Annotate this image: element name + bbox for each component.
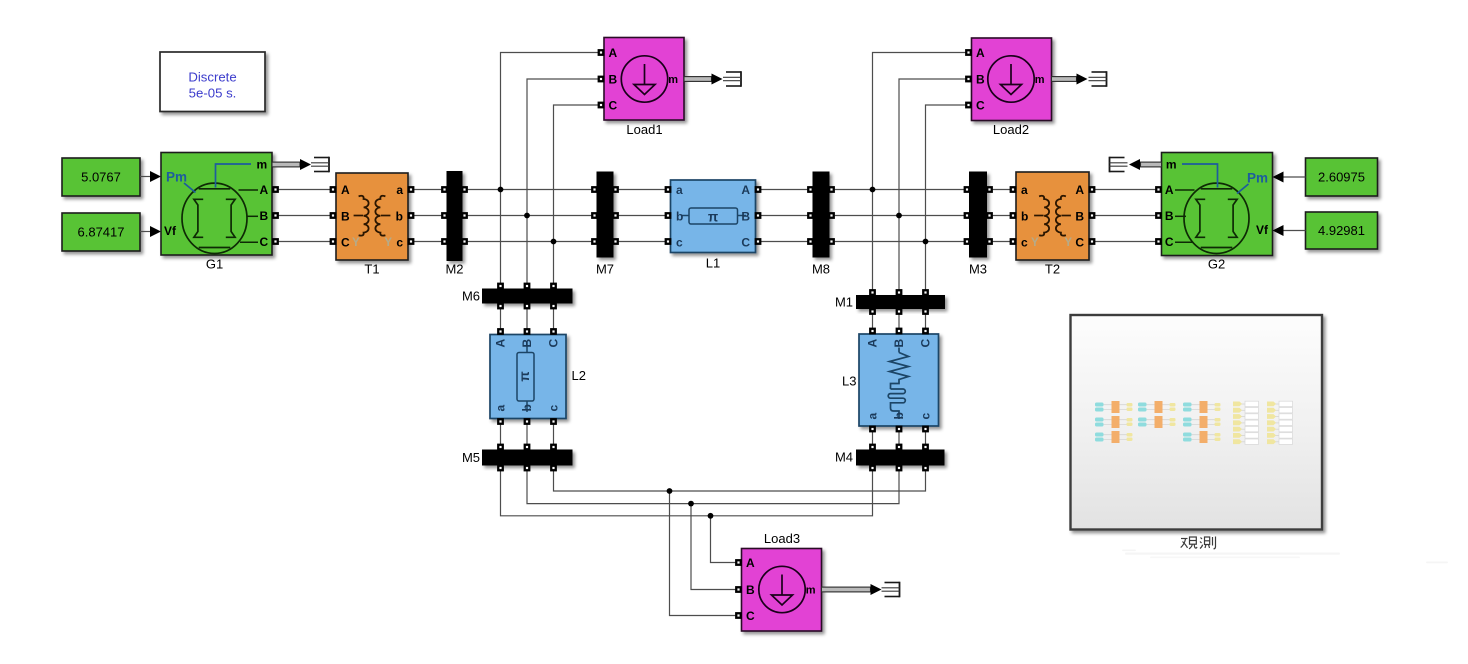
three-phase measurement bar M1 [857, 296, 945, 309]
svg-text:Y: Y [1031, 237, 1039, 249]
svg-text:Pm: Pm [166, 170, 187, 185]
wire: constant 5.0767 to G1 Pm with arrowhead [140, 171, 161, 182]
dynamic load block Load3 [742, 549, 822, 632]
svg-text:Y: Y [352, 237, 360, 249]
svg-text:M7: M7 [596, 262, 614, 277]
wire: Load2 phase B riser [899, 79, 968, 296]
svg-text:T2: T2 [1045, 262, 1060, 277]
three-phase measurement bar M5 [483, 450, 573, 465]
junction dots on bottom tie lines [667, 488, 714, 519]
svg-text:M3: M3 [969, 262, 987, 277]
wire: Load2 measurement output m (wide signal) [1052, 74, 1088, 85]
wire: Load2 phase A riser [873, 53, 969, 296]
wire: Load3 phase B drop [691, 504, 738, 590]
svg-text:b: b [892, 412, 906, 419]
svg-text:C: C [547, 339, 561, 348]
svg-text:M5: M5 [462, 450, 480, 465]
label of scope subsystem (Chinese "guan ce" = observe) [1181, 537, 1216, 549]
svg-text:2.60975: 2.60975 [1318, 170, 1365, 185]
three-phase measurement bar M3 [970, 172, 987, 257]
ports of T2 [1010, 186, 1096, 245]
svg-text:Load1: Load1 [626, 122, 662, 137]
ports of M8 [807, 186, 835, 245]
svg-text:L1: L1 [706, 256, 720, 271]
svg-text:A: A [746, 556, 755, 570]
svg-text:M2: M2 [445, 262, 463, 277]
svg-text:L2: L2 [572, 368, 586, 383]
svg-text:B: B [520, 339, 534, 348]
svg-text:G2: G2 [1208, 257, 1225, 272]
ports of M6 [497, 283, 557, 310]
svg-text:π: π [517, 371, 532, 381]
wire: Load1 measurement output m (wide signal) [684, 74, 723, 85]
svg-text:4.92981: 4.92981 [1318, 223, 1365, 238]
wire: bottom tie line phase a [501, 465, 873, 516]
svg-text:B: B [746, 583, 755, 597]
svg-text:m: m [1166, 158, 1177, 172]
constant block 4.92981 (Vf reference for G2) [1306, 212, 1378, 249]
junction dots on left bus taps [498, 187, 557, 245]
svg-text:c: c [919, 413, 933, 420]
svg-text:π: π [708, 209, 718, 224]
junction dots on right bus taps [870, 187, 929, 245]
transmission line L1 (pi section) [671, 180, 756, 253]
svg-text:A: A [341, 183, 350, 197]
transformer T2 [1016, 172, 1089, 260]
ports of M5 [497, 444, 557, 472]
svg-text:5.0767: 5.0767 [81, 170, 121, 185]
svg-text:B: B [1165, 209, 1174, 223]
svg-text:Y: Y [1064, 237, 1072, 249]
three-phase measurement bar M4 [857, 450, 945, 465]
ports of L3 [869, 328, 929, 433]
wire: Load2 phase C riser [926, 105, 969, 296]
three-phase measurement bar M7 [597, 172, 613, 257]
svg-text:A: A [976, 46, 985, 60]
wire: constant 4.92981 to G2 Vf with arrowhead [1273, 225, 1306, 236]
svg-text:Pm: Pm [1247, 171, 1268, 186]
wire: Load1 phase C riser [554, 105, 601, 289]
svg-text:M8: M8 [812, 262, 830, 277]
wire: three-phase bus, phase C row [272, 241, 1162, 243]
svg-text:C: C [976, 99, 985, 113]
svg-text:A: A [866, 339, 880, 348]
powergui block "Discrete 5e-05 s." [160, 52, 265, 112]
svg-text:m: m [668, 74, 678, 86]
wire: bottom tie line phase c (M5 right port to M4 right port) [554, 465, 926, 491]
svg-text:c: c [676, 236, 683, 250]
svg-text:C: C [341, 236, 350, 250]
wire: three-phase bus, phase A row [272, 189, 1162, 191]
wire: Load1 phase A riser [501, 53, 601, 290]
svg-text:M4: M4 [835, 450, 853, 465]
svg-text:A: A [1165, 183, 1174, 197]
wire: bottom tie line phase b [527, 465, 899, 504]
wire: Load3 phase C drop [670, 491, 739, 616]
svg-text:A: A [1075, 183, 1084, 197]
three-phase measurement bar M6 [483, 289, 573, 303]
svg-text:c: c [547, 405, 561, 412]
dynamic load block Load1 [604, 38, 684, 121]
wire: L3 to M4 segments [873, 426, 926, 450]
svg-text:B: B [976, 73, 985, 87]
svg-text:5e-05 s.: 5e-05 s. [189, 86, 237, 101]
terminator on G1 m output [311, 157, 329, 173]
ports of Load3 [735, 559, 742, 619]
three-phase measurement bar M2 [447, 172, 462, 261]
wire: L2 to M5 segments [501, 419, 554, 451]
constant block 6.87417 (Vf reference for G1) [62, 213, 140, 251]
svg-text:a: a [866, 413, 880, 420]
transformer T1 [336, 173, 408, 260]
svg-text:C: C [609, 99, 618, 113]
ports of M7 [591, 186, 619, 245]
svg-text:a: a [396, 183, 403, 197]
faint watermark smudges [1122, 550, 1448, 564]
svg-text:m: m [257, 158, 268, 172]
svg-text:C: C [1165, 235, 1174, 249]
svg-text:C: C [260, 235, 269, 249]
ports of M3 [964, 186, 993, 245]
svg-text:b: b [396, 209, 403, 223]
svg-text:b: b [520, 404, 534, 411]
svg-text:c: c [1021, 236, 1028, 250]
wire: M1 to L3 segments [873, 309, 926, 335]
ports of L1 [665, 186, 762, 245]
ports of Load2 [965, 49, 972, 108]
svg-text:M6: M6 [462, 289, 480, 304]
dynamic load block Load2 [972, 38, 1052, 121]
svg-text:B: B [892, 339, 906, 348]
transmission line L3 (series RL branch, vertical) [859, 334, 939, 426]
svg-text:m: m [1035, 74, 1045, 86]
svg-text:c: c [396, 236, 403, 250]
svg-text:m: m [806, 585, 816, 597]
svg-text:Y: Y [384, 237, 392, 249]
svg-text:C: C [741, 236, 750, 250]
svg-text:A: A [609, 46, 618, 60]
svg-text:M1: M1 [835, 295, 853, 310]
svg-text:B: B [1075, 209, 1084, 223]
svg-text:L3: L3 [842, 374, 856, 389]
svg-text:B: B [260, 209, 269, 223]
svg-text:b: b [1021, 209, 1028, 223]
wire: G2 measurement output m (wide signal) [1129, 159, 1162, 170]
ports of T1 [330, 186, 415, 245]
svg-text:Load2: Load2 [993, 122, 1029, 137]
ports of M2 [441, 186, 468, 245]
synchronous machine G2 [1162, 153, 1273, 256]
terminator on G2 m output [1110, 157, 1128, 173]
svg-text:a: a [676, 183, 683, 197]
terminator on Load2 m output [1089, 71, 1107, 87]
svg-text:b: b [676, 209, 683, 223]
wire: three-phase bus, phase B row [272, 215, 1162, 217]
wire: Load3 phase A drop [711, 516, 739, 563]
svg-text:B: B [341, 209, 350, 223]
svg-text:B: B [741, 209, 750, 223]
svg-text:C: C [746, 609, 755, 623]
ports of M1 [869, 289, 929, 315]
wire: Load3 measurement output m (wide signal) [822, 584, 882, 595]
ports of M4 [869, 444, 929, 472]
svg-text:Load3: Load3 [764, 531, 800, 546]
transmission line L2 (pi section, vertical) [490, 335, 566, 419]
wire: M6 to L2 segments [501, 303, 554, 335]
svg-text:a: a [1021, 183, 1028, 197]
svg-text:C: C [919, 339, 933, 348]
svg-text:A: A [741, 183, 750, 197]
ports of L2 [497, 328, 557, 425]
svg-text:6.87417: 6.87417 [78, 225, 125, 240]
svg-text:B: B [609, 73, 618, 87]
constant block 2.60975 (Pm reference for G2) [1306, 158, 1378, 196]
svg-text:A: A [494, 339, 508, 348]
wire: G1 measurement output m (wide signal) [272, 159, 311, 170]
scope subsystem block (observation) [1071, 315, 1323, 530]
ports of G1 (A,B,C) [272, 186, 279, 245]
svg-text:a: a [494, 405, 508, 412]
svg-text:Vf: Vf [1256, 223, 1269, 237]
svg-text:A: A [260, 183, 269, 197]
svg-text:C: C [1075, 236, 1084, 250]
svg-text:Discrete: Discrete [188, 70, 236, 85]
svg-text:T1: T1 [364, 262, 379, 277]
svg-text:Vf: Vf [164, 224, 177, 238]
ports of Load1 [598, 49, 605, 108]
terminator on Load1 m output [723, 71, 741, 87]
constant block 5.0767 (Pm reference for G1) [62, 158, 140, 196]
three-phase measurement bar M8 [813, 172, 829, 257]
synchronous machine G1 [161, 153, 272, 256]
wire: constant 2.60975 to G2 Pm with arrowhead [1273, 172, 1306, 183]
wire: Load1 phase B riser [527, 79, 601, 289]
terminator on Load3 m output [882, 582, 900, 598]
ports of G2 (A,B,C) [1155, 186, 1162, 245]
svg-text:G1: G1 [206, 257, 223, 272]
wire: constant 6.87417 to G1 Vf with arrowhead [140, 226, 161, 237]
